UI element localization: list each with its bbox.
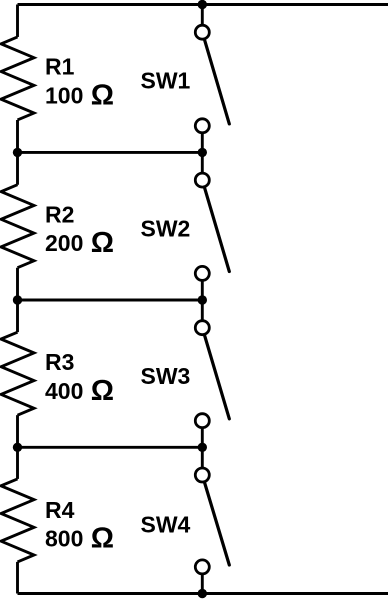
resistor R4 xyxy=(1,479,34,562)
svg-text:SW3: SW3 xyxy=(141,363,191,389)
svg-text:R1: R1 xyxy=(45,54,75,80)
wire SW3 top stub xyxy=(201,300,204,328)
wire SW2 top stub xyxy=(201,152,204,180)
svg-text:SW1: SW1 xyxy=(141,68,191,94)
node junction dot C right xyxy=(198,295,207,304)
wire top rail xyxy=(18,3,388,6)
switch SW2 xyxy=(195,173,229,280)
wire junction row node B xyxy=(18,151,203,154)
resistor R2 xyxy=(1,185,34,268)
wire left segment below R2 xyxy=(16,268,19,332)
svg-text:R3: R3 xyxy=(45,349,74,375)
wire SW1 top stub xyxy=(201,5,204,33)
resistor R3 xyxy=(1,332,34,415)
svg-text:400 Ω: 400 Ω xyxy=(45,375,114,407)
switch SW4 xyxy=(195,468,229,574)
svg-text:200 Ω: 200 Ω xyxy=(45,227,114,259)
wire SW4 bottom stub xyxy=(201,567,204,594)
wire left segment top xyxy=(16,5,19,37)
svg-text:SW2: SW2 xyxy=(141,216,191,242)
wire left segment below R1 xyxy=(16,120,19,185)
wire junction row node D xyxy=(18,446,203,449)
node junction dot D right xyxy=(198,443,207,452)
svg-text:SW4: SW4 xyxy=(141,511,191,537)
node junction dot top rail xyxy=(198,0,207,9)
wire SW3 bottom stub xyxy=(201,421,204,448)
wire left segment bottom xyxy=(16,562,19,594)
wire SW2 bottom stub xyxy=(201,273,204,300)
switch SW1 xyxy=(195,25,229,133)
wire SW1 bottom stub xyxy=(201,126,204,153)
node junction dot B left xyxy=(13,148,22,157)
wire SW4 top stub xyxy=(201,447,204,475)
node junction dot C left xyxy=(13,295,22,304)
svg-text:R4: R4 xyxy=(45,497,75,523)
svg-text:100 Ω: 100 Ω xyxy=(45,79,114,111)
svg-text:800 Ω: 800 Ω xyxy=(45,523,114,555)
node junction dot B right xyxy=(198,148,207,157)
wire left segment below R3 xyxy=(16,415,19,479)
svg-text:R2: R2 xyxy=(45,201,74,227)
wire junction row node C xyxy=(18,299,203,302)
node junction dot D left xyxy=(13,443,22,452)
wire bottom rail xyxy=(18,592,388,595)
switch SW3 xyxy=(195,321,229,428)
node junction dot bottom rail xyxy=(198,589,207,598)
resistor R1 xyxy=(1,37,34,120)
